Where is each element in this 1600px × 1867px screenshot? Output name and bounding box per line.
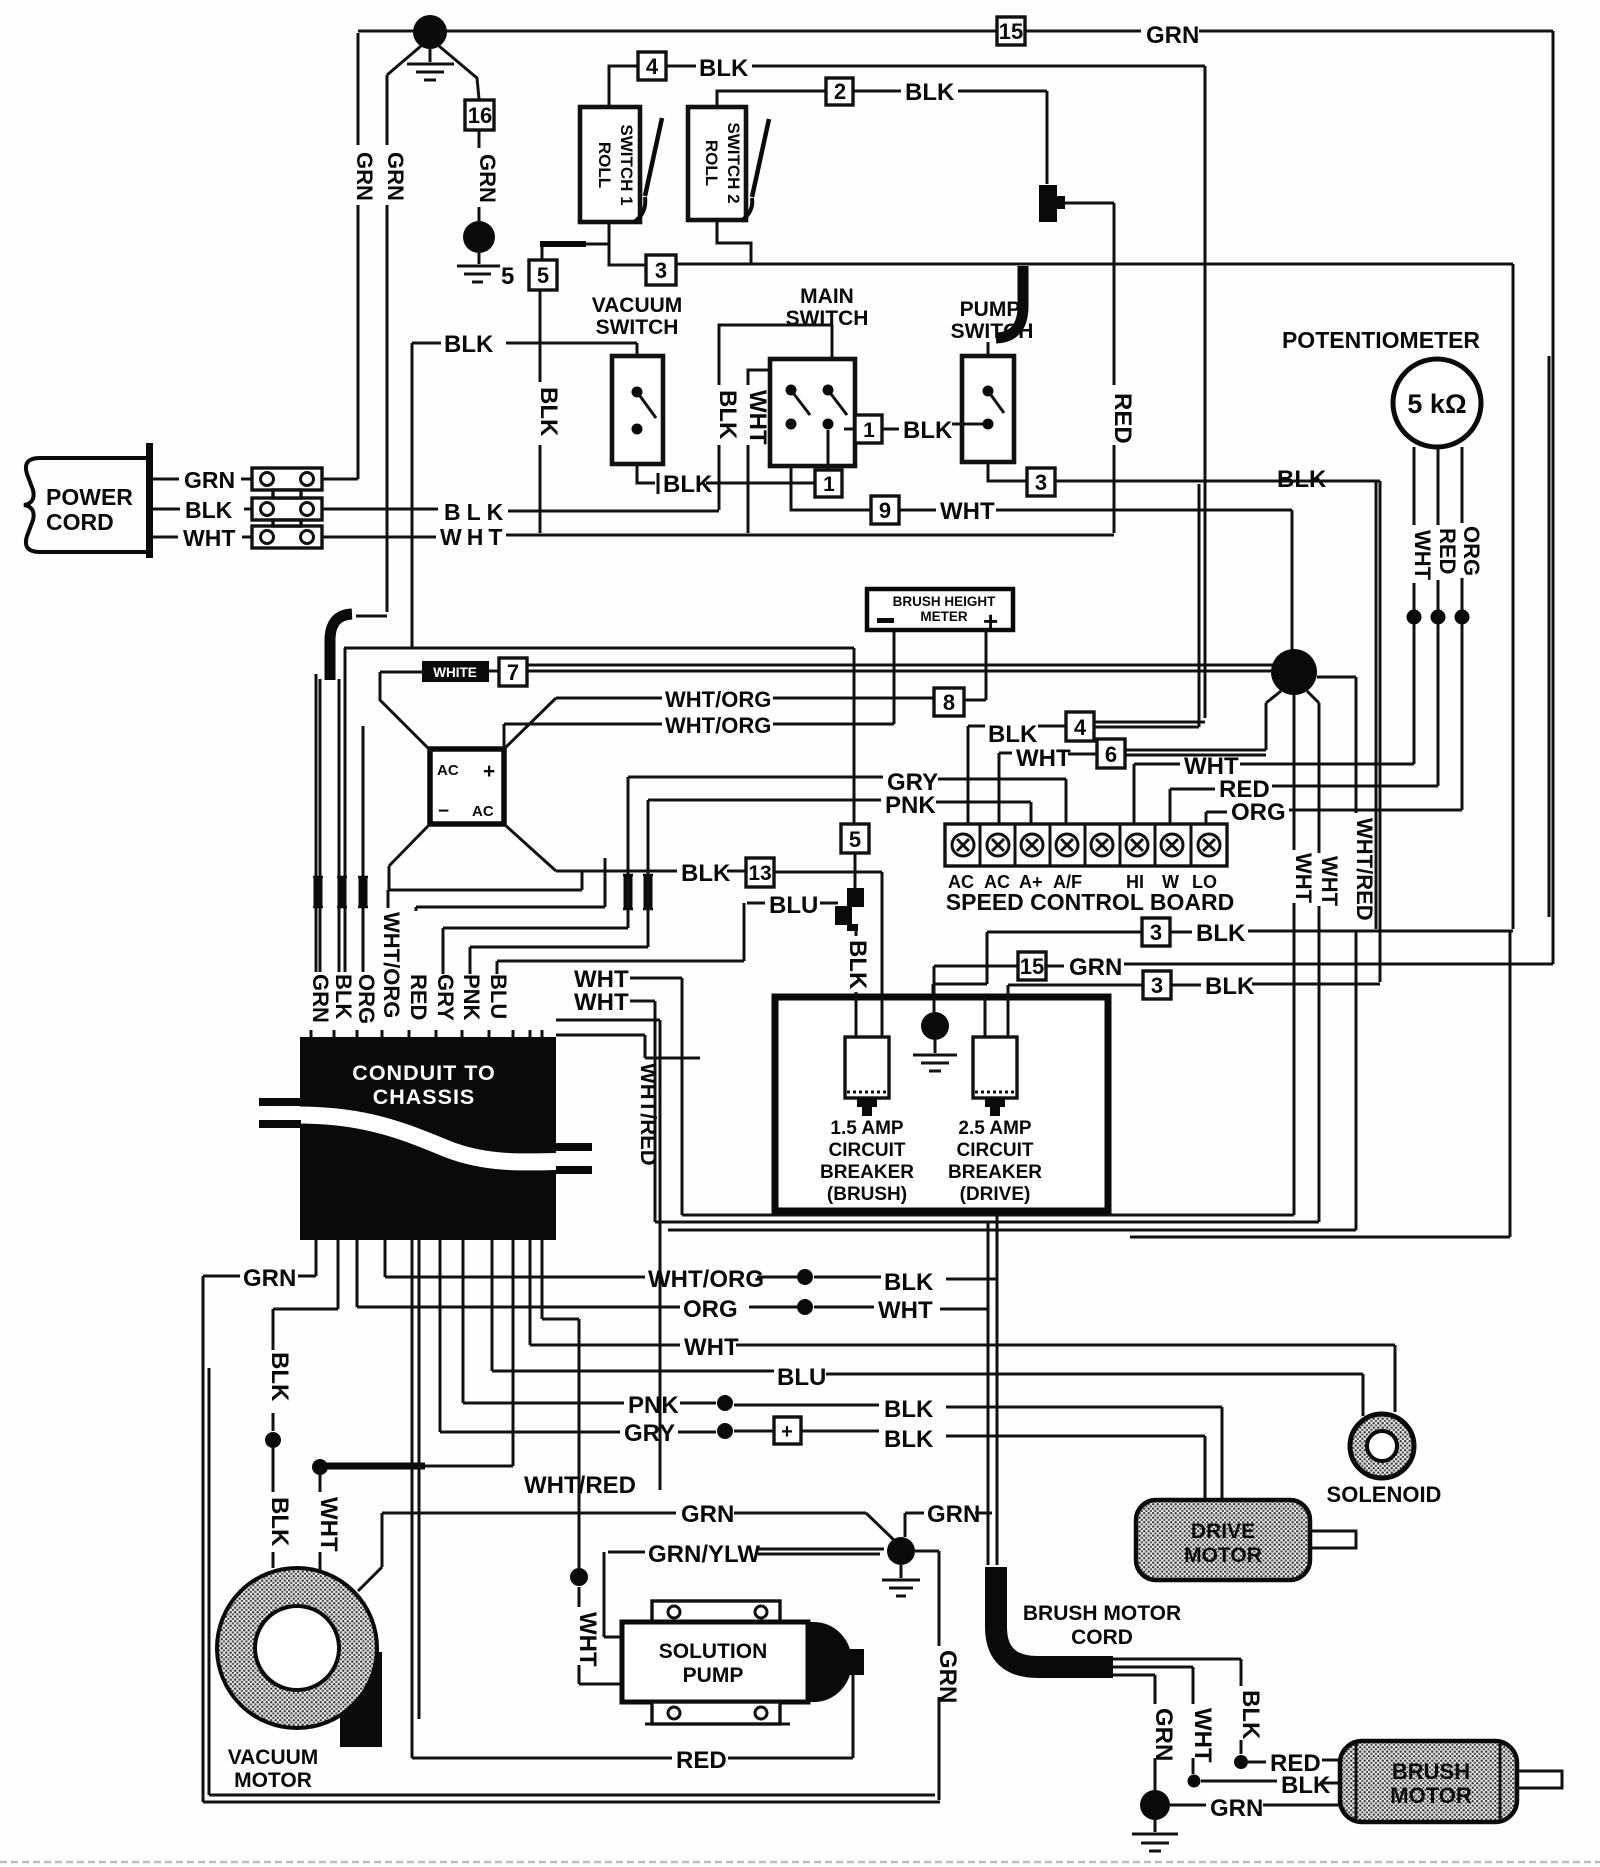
tag 1 (main switch right): [844, 415, 882, 443]
svg-text:BLK: BLK: [444, 499, 509, 525]
svg-text:GRN: GRN: [1150, 1708, 1177, 1761]
svg-text:BLK: BLK: [1281, 1772, 1331, 1799]
wire RED to brush motor: [1248, 1760, 1342, 1762]
tag 4: [638, 52, 666, 80]
wire GRY drive row: [440, 1240, 1205, 1500]
wire top GRN bus y31: [358, 31, 1553, 964]
tag 3 row2 (right): [1143, 971, 1171, 999]
svg-text:8: 8: [943, 690, 955, 715]
svg-text:MOTOR: MOTOR: [234, 1769, 312, 1792]
wire bridge ac2 diagonal to WHT/ORG row1: [504, 698, 934, 749]
wire BLK tag1 to pump switch contact: [882, 424, 986, 429]
wire potentiometer RED lead: [1431, 447, 1446, 786]
svg-text:BLK: BLK: [884, 1426, 934, 1453]
wire right vertical pair (far right): [1548, 356, 1551, 917]
wire RED crossover: [416, 858, 605, 911]
wire junction leg drop x1319: [1318, 703, 1321, 1222]
tag 7: [499, 658, 527, 686]
wire BLK conduit bottom: [265, 1240, 338, 1568]
svg-text:WHT: WHT: [940, 498, 995, 525]
svg-text:4: 4: [1074, 715, 1087, 740]
svg-text:BLK: BLK: [535, 387, 562, 437]
svg-text:5: 5: [849, 827, 861, 852]
wire GRY crossover: [443, 777, 628, 974]
wire WHT HI row: [1134, 764, 1414, 824]
tag 4 (board): [1066, 712, 1094, 741]
wire main switch bl pin to tag 9: [791, 466, 871, 510]
pump switch: [962, 356, 1014, 462]
svg-text:CONDUIT TO: CONDUIT TO: [352, 1061, 495, 1085]
circuit breaker 1.5A: [845, 1037, 889, 1116]
power cord symbol: [24, 443, 153, 558]
wire GRN2 vertical x387: [386, 75, 389, 612]
wire WHITE lead to bridge ac1: [380, 672, 430, 750]
svg-text:9: 9: [879, 498, 891, 523]
label VACUUM SWITCH: [592, 294, 683, 339]
wire BLK power run: [322, 509, 719, 511]
svg-text:WHT: WHT: [1016, 745, 1071, 772]
wire BLK board AC1 bracket: [968, 726, 985, 824]
ground (brush motor): [1132, 1790, 1178, 1851]
node III marks: [313, 877, 368, 907]
svg-text:2: 2: [834, 79, 846, 104]
wire WHT/RED drop (conduit right): [556, 1020, 660, 1490]
svg-text:GRY: GRY: [433, 974, 458, 1021]
svg-text:GRN: GRN: [308, 974, 333, 1023]
svg-text:ORG: ORG: [683, 1296, 738, 1323]
wire ground to frame GRN: [915, 1551, 939, 1800]
wire conduit label stubs: [311, 1030, 542, 1037]
wire roll switch 1 top to tag 4: [609, 66, 638, 107]
label MAIN SWITCH: [786, 285, 869, 330]
wire cord lead GRN: [1113, 1675, 1155, 1790]
wire WHT board AC2 bracket: [999, 753, 1012, 824]
scan artifact line: [0, 1861, 1600, 1864]
wire tag6 to junction leg: [1068, 750, 1266, 755]
wire ORG LO row: [1206, 810, 1462, 824]
svg-text:+: +: [781, 1421, 793, 1443]
svg-text:ROLL: ROLL: [595, 142, 614, 188]
wire GRN drop legs from top ground: [387, 46, 479, 99]
svg-text:(BRUSH): (BRUSH): [827, 1184, 907, 1205]
svg-text:GRN: GRN: [243, 1265, 296, 1292]
wire BLK vacuum switch feed: [412, 343, 637, 648]
svg-text:16: 16: [468, 103, 492, 128]
svg-text:BLU: BLU: [486, 974, 511, 1019]
svg-text:AC: AC: [437, 762, 459, 779]
wire GRN2 into r-hook: [356, 615, 387, 618]
tag 15 row (right): [1018, 952, 1046, 980]
wire GRN bracket to ground: [905, 1513, 924, 1537]
svg-text:PNK: PNK: [628, 1392, 679, 1419]
svg-text:PUMP: PUMP: [960, 298, 1021, 321]
svg-text:WHT: WHT: [1317, 856, 1342, 907]
solution pump: [622, 1601, 864, 1724]
tag 5 (mid): [841, 824, 869, 853]
svg-text:WHT: WHT: [878, 1297, 933, 1324]
wire BLK tag4 to right vertical x1205: [666, 66, 1205, 718]
svg-text:GRN: GRN: [934, 1650, 961, 1703]
svg-text:+: +: [483, 760, 495, 783]
svg-text:BLK: BLK: [1277, 466, 1327, 493]
svg-text:BRUSH: BRUSH: [1392, 1759, 1470, 1784]
svg-text:BRUSH MOTOR: BRUSH MOTOR: [1023, 1602, 1181, 1625]
svg-text:BLK: BLK: [663, 471, 713, 498]
svg-text:WHT: WHT: [440, 524, 507, 550]
svg-text:SWITCH 1: SWITCH 1: [617, 124, 636, 205]
svg-text:GRN: GRN: [1210, 1795, 1263, 1822]
wire connector tab to RED vertical: [1064, 203, 1114, 533]
label PUMP SWITCH: [951, 298, 1034, 343]
svg-text:PUMP: PUMP: [683, 1664, 744, 1687]
ground (breaker box): [913, 1012, 957, 1071]
ground (top, chassis): [407, 15, 454, 80]
svg-text:BLK: BLK: [699, 55, 749, 82]
tag 8: [934, 688, 964, 716]
svg-text:ROLL: ROLL: [702, 140, 721, 186]
wire WHITE tag7 bus to junction: [528, 665, 1273, 671]
wire RED pump row: [412, 1675, 853, 1758]
tag 2: [826, 78, 853, 105]
wire tag13 to breaker box: [774, 872, 882, 997]
drive motor: [1136, 1500, 1356, 1580]
svg-text:RED: RED: [1109, 393, 1136, 444]
svg-text:3: 3: [1150, 920, 1162, 945]
svg-text:BLK: BLK: [844, 940, 871, 990]
stepped connector (BLU/BLK): [835, 888, 864, 931]
speed control board terminal strip: [945, 824, 1227, 866]
svg-text:WHT/RED: WHT/RED: [636, 1063, 661, 1166]
wire tag8 to meter plus: [964, 630, 986, 700]
ground (pump area): [882, 1537, 920, 1596]
wire RED long drop: [412, 1240, 419, 1758]
wire GRN3 vertical x479: [478, 130, 481, 221]
tag 3 row1 (right): [1142, 918, 1170, 946]
wire BLK conduit pair: [339, 648, 345, 972]
svg-text:WHT: WHT: [574, 1612, 601, 1667]
circuit breaker box: [775, 997, 1108, 1211]
wire PNK crossover: [470, 800, 648, 974]
svg-text:ORG: ORG: [1231, 799, 1286, 826]
WHITE sleeve label: [422, 661, 499, 682]
wire cord lead BLK: [1113, 1659, 1248, 1769]
svg-text:5 kΩ: 5 kΩ: [1407, 389, 1466, 419]
svg-text:RED: RED: [1435, 528, 1460, 574]
svg-text:6: 6: [1105, 742, 1117, 767]
svg-text:BLU: BLU: [769, 892, 818, 919]
svg-text:SWITCH: SWITCH: [596, 316, 679, 339]
conduit to chassis (black box): [259, 1037, 592, 1240]
wire WHT/ORG crossover: [388, 871, 582, 908]
svg-text:SWITCH: SWITCH: [786, 307, 869, 330]
svg-text:WHT/RED: WHT/RED: [1352, 818, 1377, 921]
svg-text:GRN: GRN: [1069, 954, 1122, 981]
wire WHT tag9 to junction: [899, 510, 1292, 651]
svg-text:BLK: BLK: [266, 1352, 293, 1402]
svg-text:BREAKER: BREAKER: [820, 1162, 914, 1183]
wire junction center drop: [1293, 695, 1296, 1215]
tag 9: [871, 496, 899, 524]
wire GRN connector riser: [322, 478, 358, 481]
svg-text:GRN: GRN: [383, 152, 408, 201]
inline connector (black): [1039, 185, 1065, 222]
svg-text:GRN: GRN: [184, 467, 235, 493]
wire main switch br contact to lower tag1: [827, 430, 830, 470]
wire BLU crossover: [497, 903, 744, 974]
wire BLU to connector: [747, 902, 838, 905]
wire bridge plus to WHT/ORG row2: [504, 630, 894, 749]
svg-text:CHASSIS: CHASSIS: [373, 1085, 476, 1109]
wire vacuum switch bottom to tag1: [637, 464, 815, 494]
svg-text:AC: AC: [472, 803, 494, 820]
wire GRN conduit bottom row: [203, 1240, 316, 1802]
svg-text:PNK: PNK: [885, 792, 936, 819]
tag 3 (roll switches): [646, 255, 676, 285]
wire right vertical 1510: [1130, 931, 1510, 1237]
svg-text:BLK: BLK: [681, 860, 731, 887]
svg-text:5: 5: [501, 263, 514, 290]
terminal labels: [948, 872, 1217, 892]
wire tag5 riser lower: [539, 290, 542, 533]
svg-text:BLK: BLK: [185, 497, 233, 523]
label 1.5 AMP CIRCUIT BREAKER (BRUSH): [820, 1118, 914, 1205]
svg-text:WHT: WHT: [183, 525, 235, 551]
screw terminals: [952, 834, 1220, 856]
svg-text:15: 15: [999, 19, 1023, 44]
wire WHT pump feed: [542, 1240, 622, 1684]
svg-text:BLK: BLK: [714, 390, 741, 440]
wire BLU solenoid row: [492, 1240, 1363, 1416]
connector WHT (power): [252, 526, 322, 548]
svg-text:GRN: GRN: [681, 1501, 734, 1528]
tag 13: [746, 858, 774, 887]
wire tag4 board to right verticals: [1038, 484, 1205, 727]
wire roll switch 2 bottom drop: [717, 220, 751, 264]
svg-text:BRUSH HEIGHT: BRUSH HEIGHT: [893, 594, 997, 609]
svg-text:1: 1: [823, 473, 835, 496]
svg-text:WHITE: WHITE: [433, 665, 477, 680]
svg-text:WHT: WHT: [1410, 530, 1435, 581]
tag 1 (lower): [815, 470, 842, 497]
svg-text:13: 13: [748, 862, 771, 885]
label 2.5 AMP CIRCUIT BREAKER (DRIVE): [948, 1118, 1042, 1205]
wire PNK drive row: [463, 1240, 1222, 1500]
wire PNK row: [648, 800, 1031, 824]
svg-text:WHT/ORG: WHT/ORG: [665, 713, 771, 738]
wire aux conduit right line: [556, 1035, 1356, 1230]
svg-text:BLK: BLK: [884, 1396, 934, 1423]
wire roll switch 1 bottom to tag 3: [609, 222, 646, 265]
svg-text:BLK: BLK: [905, 79, 955, 106]
svg-text:WHT: WHT: [1189, 1708, 1216, 1763]
wire WHT solenoid row: [530, 1240, 1395, 1412]
svg-text:MOTOR: MOTOR: [1390, 1783, 1472, 1808]
svg-text:1: 1: [863, 419, 875, 442]
thick r-hook (GRN into conduit): [330, 614, 352, 680]
bridge rectifier: [430, 749, 504, 824]
svg-text:WHT: WHT: [744, 390, 771, 445]
main switch: [770, 359, 855, 466]
svg-text:DRIVE: DRIVE: [1191, 1520, 1255, 1543]
junction dot (main): [1271, 649, 1317, 695]
svg-text:WHT: WHT: [684, 1334, 739, 1361]
wire hline y648 (vacuum feed to tag5 mid): [344, 648, 854, 824]
svg-text:BLK: BLK: [1237, 1690, 1264, 1740]
svg-text:WHT: WHT: [315, 1497, 342, 1552]
svg-text:WHT/ORG: WHT/ORG: [665, 687, 771, 712]
wire connector to breaker1: [855, 931, 858, 1037]
svg-text:CORD: CORD: [46, 509, 114, 535]
svg-text:ORG: ORG: [354, 974, 379, 1024]
wire cord GRN tick: [975, 1512, 992, 1515]
tag plus: [774, 1417, 801, 1444]
wire main bus y264 to far right: [676, 264, 1513, 929]
wire GRN row15: [934, 964, 1553, 1010]
svg-text:5: 5: [537, 263, 549, 288]
wire pump switch bottom to tag 3: [988, 462, 1027, 481]
svg-text:PNK: PNK: [459, 974, 484, 1021]
wire bridge ac-bottom diagonal to BLK13 row: [504, 824, 556, 871]
svg-text:BLU: BLU: [777, 1364, 826, 1391]
svg-text:15: 15: [1020, 954, 1044, 979]
label VACUUM MOTOR: [228, 1746, 319, 1792]
svg-text:CIRCUIT: CIRCUIT: [828, 1140, 905, 1161]
svg-text:2.5 AMP: 2.5 AMP: [958, 1118, 1032, 1139]
svg-text:GRN: GRN: [352, 152, 377, 201]
roll switch 1: [580, 107, 662, 222]
svg-text:BLK: BLK: [988, 721, 1038, 748]
wire tag5 mid to connector: [854, 853, 857, 888]
roll switch 2: [688, 107, 769, 221]
svg-text:RED: RED: [406, 974, 431, 1020]
svg-text:BLK: BLK: [444, 331, 494, 358]
svg-text:BREAKER: BREAKER: [948, 1162, 1042, 1183]
vacuum motor: [217, 1568, 382, 1747]
svg-text:CORD: CORD: [1071, 1626, 1133, 1649]
tag 5 (upper): [529, 260, 557, 290]
svg-text:4: 4: [646, 54, 659, 79]
wire WHT power run: [322, 535, 1114, 537]
svg-text:SWITCH 2: SWITCH 2: [724, 122, 743, 203]
wire ORG bottom row: [357, 1222, 988, 1565]
svg-text:WHT: WHT: [1291, 853, 1316, 904]
brush height meter: [867, 589, 1013, 636]
svg-text:POTENTIOMETER: POTENTIOMETER: [1282, 327, 1480, 353]
wire GRN to brush motor: [1170, 1804, 1342, 1807]
svg-text:GRN/YLW: GRN/YLW: [648, 1541, 760, 1568]
thick pump cord J: [996, 266, 1023, 338]
connector links: [273, 490, 301, 526]
svg-text:SOLUTION: SOLUTION: [659, 1640, 768, 1663]
wire WHT rowB to junction leg: [630, 1001, 1319, 1222]
svg-text:GRN: GRN: [1146, 22, 1199, 49]
wire BLK power riser to main switch: [719, 325, 832, 510]
node II marks: [623, 875, 653, 909]
svg-text:BLK: BLK: [903, 417, 953, 444]
wire BLK tag2 down to inline connector: [853, 91, 1047, 184]
brush motor cord (thick): [996, 1567, 1113, 1667]
tag 3 (pump): [1027, 468, 1055, 496]
wire thick WHT jumper to conduit: [321, 1240, 513, 1466]
wire WHT rowA to junction drop: [630, 978, 1294, 1215]
wire WHT vac motor: [312, 1459, 328, 1576]
circuit breaker 2.5A: [973, 1037, 1017, 1116]
wire WHT/ORG bottom row: [385, 1215, 997, 1565]
svg-text:CIRCUIT: CIRCUIT: [956, 1140, 1033, 1161]
svg-text:WHT/ORG: WHT/ORG: [379, 912, 404, 1018]
tag 15 (top): [997, 17, 1025, 45]
svg-text:RED: RED: [676, 1747, 727, 1774]
wire tag3 pump to right verticals: [1055, 481, 1380, 982]
wire potentiometer ORG lead: [1455, 447, 1470, 810]
svg-text:METER: METER: [920, 609, 968, 624]
brush motor: [1340, 1741, 1562, 1822]
svg-text:SOLENOID: SOLENOID: [1327, 1482, 1442, 1507]
svg-text:BLK: BLK: [266, 1497, 293, 1547]
wire breaker stems: [856, 997, 1008, 1037]
wire WHT riser to main switch: [748, 370, 770, 533]
svg-text:BLK: BLK: [1205, 973, 1255, 1000]
wire GRN/YLW: [604, 1549, 884, 1637]
svg-text:1.5 AMP: 1.5 AMP: [830, 1118, 904, 1139]
solenoid: [1350, 1414, 1414, 1478]
svg-text:WHT: WHT: [574, 989, 629, 1016]
wire BLK to brush motor: [1201, 1781, 1342, 1783]
wire potentiometer WHT lead: [1407, 447, 1422, 764]
svg-text:POWER: POWER: [46, 484, 133, 510]
svg-text:MAIN: MAIN: [800, 285, 854, 308]
svg-text:ORG: ORG: [1459, 526, 1484, 576]
svg-text:VACUUM: VACUUM: [228, 1746, 319, 1769]
wire bottom frame: [203, 1795, 940, 1802]
svg-text:SPEED CONTROL BOARD: SPEED CONTROL BOARD: [946, 889, 1234, 915]
wire GRY row: [628, 777, 1066, 824]
svg-text:3: 3: [1035, 470, 1047, 495]
tag 16: [465, 100, 494, 130]
svg-text:MOTOR: MOTOR: [1184, 1544, 1262, 1567]
svg-text:BLK: BLK: [1196, 920, 1246, 947]
wire BLK row1: [933, 931, 1513, 1010]
wire bridge minus diagonal down: [389, 824, 430, 890]
svg-text:3: 3: [655, 258, 667, 283]
wire BLK row2: [1008, 984, 1380, 997]
wire GRN conduit pair: [316, 674, 320, 972]
svg-text:(DRIVE): (DRIVE): [960, 1184, 1031, 1205]
wire BLK tag13 row: [556, 870, 746, 873]
connector GRN (power): [252, 468, 322, 490]
svg-text:GRN: GRN: [927, 1501, 980, 1528]
svg-text:3: 3: [1151, 973, 1163, 998]
potentiometer 5k: [1393, 359, 1481, 447]
label BRUSH MOTOR CORD: [1023, 1602, 1181, 1649]
wire pump switch top pin: [987, 342, 990, 356]
wire power cord leads: [153, 479, 252, 537]
wire ORG conduit riser: [362, 726, 365, 972]
wire cord lead WHT: [1113, 1667, 1201, 1788]
wire RED W row: [1170, 786, 1438, 824]
wire GRN1 vertical x358: [357, 33, 360, 479]
wire junction right arm: [1317, 677, 1356, 1230]
svg-text:BLK: BLK: [884, 1269, 934, 1296]
svg-text:GRY: GRY: [624, 1420, 675, 1447]
svg-text:BLK: BLK: [331, 974, 356, 1019]
vacuum switch: [612, 356, 663, 464]
wire tag5 riser and thick jumper: [540, 243, 609, 260]
ground 5 (dot + symbol): [457, 221, 514, 290]
svg-text:GRN: GRN: [475, 154, 500, 203]
svg-text:−: −: [438, 801, 449, 822]
wire junction left legs: [1266, 691, 1319, 750]
